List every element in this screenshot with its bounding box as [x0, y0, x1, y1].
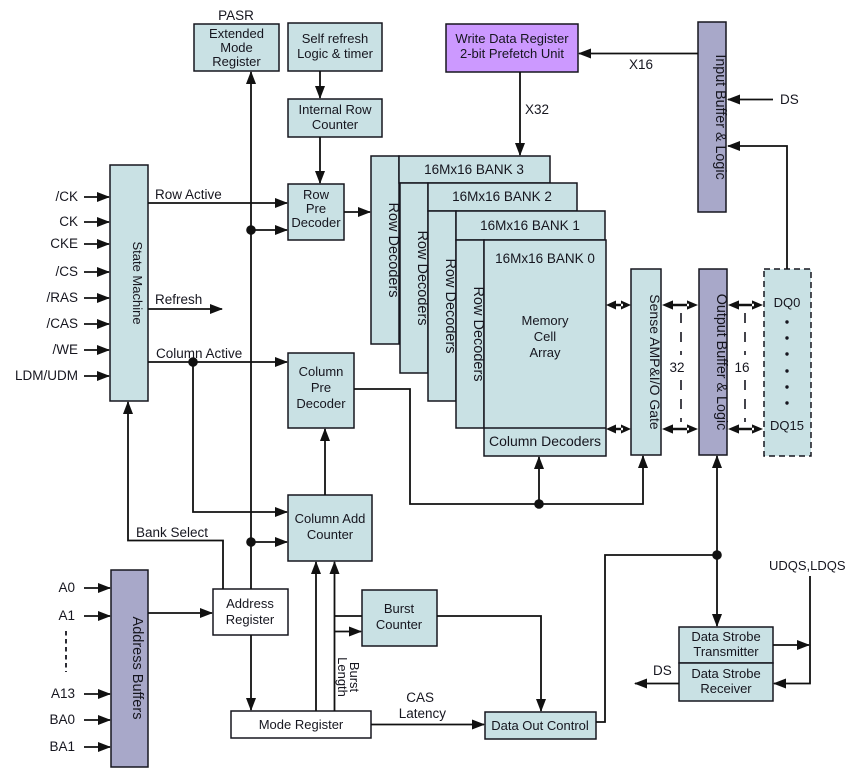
- wire Row Active: State Machine to Row Pre Decoder: [148, 202, 287, 204]
- block Row Decoders (bank 0 strip): [456, 240, 486, 428]
- block Row Decoders (bank 2 strip): [400, 183, 430, 373]
- svg-text:X16: X16: [629, 57, 653, 72]
- svg-text:Output Buffer & Logic: Output Buffer & Logic: [713, 294, 729, 430]
- svg-text:Pre: Pre: [311, 380, 331, 395]
- wire branch to Column Add Counter second input: [251, 541, 287, 543]
- svg-text:LDM/UDM: LDM/UDM: [15, 368, 78, 383]
- svg-text:Data Strobe: Data Strobe: [691, 666, 760, 681]
- svg-text:Cell: Cell: [534, 329, 557, 344]
- block DQ0..DQ15 pads (dashed): [764, 269, 811, 456]
- wire sense amp to output buffer bus (top): [662, 300, 698, 309]
- svg-text:DS: DS: [780, 92, 799, 107]
- svg-text:Logic & timer: Logic & timer: [297, 46, 374, 61]
- svg-text:Self refresh: Self refresh: [302, 31, 368, 46]
- svg-text:Column Add: Column Add: [295, 511, 366, 526]
- wire branch up to Column Decoders: [538, 457, 540, 504]
- svg-text:State Machine: State Machine: [130, 241, 145, 324]
- svg-text:/CAS: /CAS: [46, 316, 78, 331]
- block Input Buffer & Logic: [698, 22, 728, 212]
- wire Refresh arrow: [148, 308, 222, 310]
- svg-text:Sense AMP&I/O Gate: Sense AMP&I/O Gate: [647, 294, 663, 430]
- block Address Buffers: [111, 570, 148, 767]
- svg-text:16Mx16 BANK 1: 16Mx16 BANK 1: [480, 218, 580, 233]
- svg-text:Decoder: Decoder: [296, 396, 346, 411]
- wire Address Register to Mode Register: [250, 635, 252, 710]
- svg-text:CK: CK: [59, 214, 78, 229]
- svg-text:Mode: Mode: [220, 40, 253, 55]
- block Write Data Register 2-bit Prefetch Unit: [446, 24, 578, 72]
- svg-text:Array: Array: [529, 345, 561, 360]
- wire sense amp to output buffer bus (bottom): [662, 424, 698, 433]
- svg-text:2-bit Prefetch Unit: 2-bit Prefetch Unit: [460, 46, 564, 61]
- wire A0 input: [84, 587, 110, 589]
- wire LDM/UDM input: [84, 375, 109, 377]
- wire DS input to Input Buffer: [728, 99, 773, 101]
- junction on output buffer vertical: [712, 550, 722, 560]
- svg-text:A1: A1: [58, 608, 75, 623]
- wire CK input: [84, 221, 109, 223]
- svg-text:16Mx16 BANK 0: 16Mx16 BANK 0: [495, 251, 595, 266]
- block Extended Mode Register: [194, 24, 279, 71]
- bus width mark 16 (dashed): [744, 313, 746, 422]
- junction on address bus at Row Pre Decoder branch: [246, 225, 256, 235]
- wire Internal Row Counter to Row Pre Decoder: [319, 137, 321, 183]
- wire DS output from Data Strobe Receiver: [635, 683, 679, 685]
- svg-text:DS: DS: [653, 663, 672, 678]
- block Data Strobe Transmitter: [679, 627, 773, 663]
- svg-text:PASR: PASR: [218, 8, 254, 23]
- wire Data Out Control up to Output Buffer: [596, 456, 717, 722]
- svg-text:16Mx16 BANK 3: 16Mx16 BANK 3: [424, 162, 524, 177]
- svg-text:Pre: Pre: [306, 201, 326, 216]
- wire Bank Select: Address Register to State Machine: [128, 402, 223, 589]
- svg-text:16Mx16 BANK 2: 16Mx16 BANK 2: [452, 189, 552, 204]
- wire /CK input: [84, 196, 109, 198]
- wire Burst Counter to Data Out Control: [437, 616, 541, 711]
- svg-text:BA0: BA0: [49, 712, 75, 727]
- wire output buffer to DQ bus (top): [728, 300, 763, 309]
- svg-text:/RAS: /RAS: [46, 290, 78, 305]
- wire /WE input: [84, 349, 109, 351]
- svg-text:A13: A13: [51, 686, 75, 701]
- wire Column Add Counter to Column Pre Decoder: [324, 429, 326, 495]
- block Address Register: [213, 589, 288, 635]
- svg-text:Burst: Burst: [384, 601, 415, 616]
- bus width mark 32 (dashed): [680, 313, 682, 422]
- block Column Add Counter: [288, 495, 372, 561]
- svg-text:32: 32: [669, 360, 684, 375]
- wire CAS Latency: Mode Register to Data Out Control: [371, 724, 484, 726]
- svg-text:Counter: Counter: [307, 527, 354, 542]
- block 16Mx16 BANK 1 header: [456, 211, 605, 240]
- svg-text:Row Decoders: Row Decoders: [385, 202, 401, 297]
- block 16Mx16 BANK 0 memory cell array: [484, 240, 606, 456]
- svg-text:Transmitter: Transmitter: [693, 644, 759, 659]
- block Burst Counter: [362, 590, 437, 646]
- svg-text:Memory: Memory: [522, 313, 569, 328]
- wire UDQS,LDQS vertical: [774, 576, 810, 684]
- svg-text:/WE: /WE: [53, 342, 79, 357]
- svg-text:Receiver: Receiver: [700, 681, 752, 696]
- svg-text:Bank Select: Bank Select: [136, 525, 208, 540]
- block 16Mx16 BANK 2 header: [428, 183, 577, 211]
- svg-text:Row: Row: [303, 187, 330, 202]
- block Column Pre Decoder: [288, 353, 354, 428]
- wire Data Strobe Transmitter output: [773, 644, 809, 646]
- wire /CAS input: [84, 323, 109, 325]
- svg-text:Column Decoders: Column Decoders: [489, 433, 601, 449]
- svg-text:Address: Address: [226, 596, 274, 611]
- wire Row Pre Decoder to Row Decoders: [344, 211, 370, 213]
- svg-text:Row Active: Row Active: [155, 187, 222, 202]
- svg-text:Decoder: Decoder: [291, 215, 341, 230]
- block Row Decoders (bank 3 strip): [371, 156, 401, 344]
- block Mode Register: [231, 711, 371, 738]
- svg-text:16: 16: [734, 360, 749, 375]
- svg-text:CAS: CAS: [406, 690, 434, 705]
- svg-text:/CS: /CS: [55, 264, 78, 279]
- wire bank0 to sense amp bus (bottom): [606, 425, 631, 434]
- svg-text:Address Buffers: Address Buffers: [129, 617, 145, 720]
- wire X16: Input Buffer to Write Data Register: [579, 53, 698, 55]
- wire Address Buffers to Address Register: [148, 612, 212, 614]
- svg-text:Data Out Control: Data Out Control: [491, 718, 589, 733]
- wire Burst Length arrow into Burst Counter: [335, 631, 362, 633]
- svg-text:BA1: BA1: [49, 739, 75, 754]
- wire A1 input: [84, 615, 110, 617]
- wire Column Active: State Machine to Column Pre Decoder: [148, 361, 287, 363]
- svg-text:UDQS,LDQS: UDQS,LDQS: [769, 558, 846, 573]
- block Self refresh Logic & timer: [288, 23, 382, 71]
- svg-text:Latency: Latency: [399, 706, 447, 721]
- block Row Pre Decoder: [288, 184, 344, 240]
- svg-text:Column Active: Column Active: [156, 346, 242, 361]
- wire CKE input: [84, 243, 109, 245]
- svg-text:Length: Length: [335, 657, 350, 697]
- block State Machine: [110, 165, 148, 401]
- block 16Mx16 BANK 3 header: [399, 156, 550, 183]
- svg-text:A0: A0: [58, 580, 75, 595]
- wire branch to Row Pre Decoder second input: [251, 229, 287, 231]
- wire X32: Write Data Register to banks: [519, 72, 521, 155]
- wire Column Pre Decoder output to Sense AMP: [354, 389, 643, 504]
- wire /RAS input: [84, 297, 109, 299]
- wire BA0 input: [84, 719, 110, 721]
- svg-text:Input Buffer & Logic: Input Buffer & Logic: [712, 54, 728, 179]
- ellipsis between A1 and A13: [65, 631, 67, 672]
- block Sense AMP&I/O Gate: [631, 269, 663, 455]
- svg-text:Column: Column: [299, 364, 344, 379]
- svg-text:DQ15: DQ15: [770, 418, 804, 433]
- svg-text:Data Strobe: Data Strobe: [691, 629, 760, 644]
- wire /CS input: [84, 271, 109, 273]
- wire Burst Counter tap: [335, 615, 363, 617]
- block Row Decoders (bank 1 strip): [428, 211, 458, 401]
- wire BA1 input: [84, 746, 110, 748]
- wire Burst Length net: Mode Register up past Burst Counter to Column Add Counter: [334, 562, 336, 711]
- wire A13 input: [84, 693, 110, 695]
- svg-text:Register: Register: [212, 54, 261, 69]
- svg-text:CKE: CKE: [50, 236, 78, 251]
- svg-text:DQ0: DQ0: [774, 295, 801, 310]
- label Burst Length (rotated): [335, 657, 362, 697]
- block Output Buffer & Logic: [699, 269, 729, 455]
- svg-text:Internal Row: Internal Row: [299, 102, 373, 117]
- junction below Column Decoders: [534, 499, 544, 509]
- wire Mode Register to Column Add Counter: [315, 562, 317, 711]
- svg-text:Mode Register: Mode Register: [259, 717, 344, 732]
- svg-text:Counter: Counter: [312, 117, 359, 132]
- svg-text:Write Data Register: Write Data Register: [455, 31, 569, 46]
- wire column active branch down to Column Add Counter: [193, 362, 287, 512]
- svg-text:Extended: Extended: [209, 26, 264, 41]
- svg-text:X32: X32: [525, 102, 549, 117]
- wire down to Data Strobe Transmitter: [716, 555, 718, 626]
- block Internal Row Counter: [288, 99, 382, 137]
- wire output buffer to DQ bus (bottom): [728, 424, 763, 433]
- svg-text:/CK: /CK: [55, 189, 78, 204]
- junction on Column Active line: [188, 357, 198, 367]
- svg-text:Refresh: Refresh: [155, 292, 202, 307]
- svg-text:Register: Register: [226, 612, 275, 627]
- label CAS Latency: [399, 690, 447, 721]
- wire bank0 to sense amp bus (top): [606, 301, 631, 310]
- block Data Strobe Receiver: [679, 663, 773, 701]
- svg-text:Counter: Counter: [376, 617, 423, 632]
- junction on address bus at Column Add Counter branch: [246, 537, 256, 547]
- block Data Out Control: [485, 712, 596, 739]
- wire DQ pads up to Input Buffer: [728, 146, 787, 269]
- wire Self refresh to Internal Row Counter: [319, 71, 321, 98]
- wire address bus vertical up to Extended Mode Register: [250, 72, 252, 589]
